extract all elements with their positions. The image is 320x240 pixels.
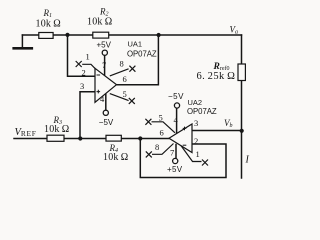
UA2 pin8 stub [152, 144, 174, 155]
svg-text:Va: Va [230, 25, 239, 36]
UA1 pin1 stub [82, 64, 95, 68]
wire UA1 pin4 [105, 94, 107, 110]
UA2 pin5 stub [152, 122, 176, 133]
op-amp UA2 plus sign [183, 127, 187, 131]
svg-text:6: 6 [123, 74, 127, 84]
op-amp UA1 minus sign [97, 74, 101, 76]
svg-text:1: 1 [196, 149, 200, 159]
svg-text:−5V: −5V [99, 118, 114, 127]
ground [14, 47, 32, 50]
svg-text:VREF: VREF [15, 127, 37, 138]
junction node E (Vb) [240, 129, 244, 133]
wire UA2 pin3 to Vb [192, 130, 241, 132]
UA1 pin8 X [129, 66, 135, 72]
svg-text:6: 6 [160, 128, 164, 138]
UA1 pin5 stub [110, 94, 129, 101]
svg-text:2: 2 [82, 68, 86, 78]
svg-text:6. 25k Ω: 6. 25k Ω [197, 71, 236, 82]
wire UA1 output feedback [117, 35, 159, 85]
resistor R2 [93, 32, 109, 38]
svg-text:8: 8 [155, 142, 159, 152]
junction node C [78, 136, 82, 140]
svg-text:3: 3 [194, 118, 198, 128]
UA2 pin1 X [202, 160, 208, 166]
svg-text:I: I [245, 155, 250, 166]
wire UA1 pin7 [104, 55, 106, 75]
svg-text:OP07AZ: OP07AZ [187, 107, 217, 116]
svg-text:−5V: −5V [168, 92, 184, 101]
svg-text:10k Ω: 10k Ω [36, 19, 61, 30]
svg-text:R1: R1 [43, 8, 53, 19]
junction node D [138, 136, 142, 140]
op-amp U A1 triangle [95, 68, 117, 102]
UA1 pin5 X [129, 98, 135, 104]
resistor R3 [47, 135, 64, 141]
wire UA2 pin4 [176, 108, 178, 133]
wire UA2 feedback loop [140, 139, 226, 178]
UA1 pin8 stub [110, 69, 129, 76]
wire right rail [241, 35, 243, 178]
wire ground drop [21, 35, 23, 47]
UA2 pin8 X [146, 151, 152, 157]
svg-text:5: 5 [159, 113, 163, 123]
svg-text:5: 5 [123, 89, 127, 99]
resistor R1 [39, 33, 53, 39]
svg-text:2: 2 [194, 136, 198, 146]
wire node C to UA1 pin3 [80, 92, 95, 139]
power terminal -5V UA2 [174, 103, 179, 108]
op-amp UA1 plus sign [97, 90, 101, 94]
UA2 pin1 stub [181, 146, 202, 162]
wire top rail [22, 34, 241, 36]
svg-text:4: 4 [174, 115, 179, 125]
op-amp UA2 minus sign [183, 144, 187, 146]
svg-text:OP07AZ: OP07AZ [127, 50, 157, 59]
junction node B [157, 33, 161, 37]
power terminal -5V UA1 [103, 110, 108, 115]
svg-text:Vb: Vb [224, 118, 233, 129]
power terminal +5V UA2 [173, 158, 178, 163]
UA1 pin1 X [76, 61, 82, 67]
svg-text:UA1: UA1 [128, 40, 143, 49]
svg-text:UA2: UA2 [188, 98, 203, 107]
resistor Rref0 [238, 64, 245, 81]
svg-text:+5V: +5V [97, 41, 112, 50]
op-amp UA2 triangle (mirrored) [169, 124, 192, 153]
resistor R4 [106, 135, 121, 141]
UA2 pin5 X [145, 119, 151, 125]
svg-text:8: 8 [120, 59, 124, 69]
svg-text:10k Ω: 10k Ω [103, 152, 128, 163]
svg-text:+5V: +5V [167, 165, 183, 174]
wire VREF rail [14, 138, 169, 140]
svg-text:7: 7 [102, 60, 106, 70]
svg-text:3: 3 [80, 81, 84, 91]
svg-text:1: 1 [86, 52, 90, 62]
junction node A [65, 33, 69, 37]
power terminal +5V UA1 [102, 50, 107, 55]
svg-text:10k Ω: 10k Ω [44, 124, 69, 135]
svg-text:7: 7 [170, 148, 174, 158]
wire UA2 pin7 [175, 145, 177, 159]
svg-text:10k Ω: 10k Ω [87, 17, 112, 28]
wire node A to UA1 pin2 [68, 35, 95, 76]
